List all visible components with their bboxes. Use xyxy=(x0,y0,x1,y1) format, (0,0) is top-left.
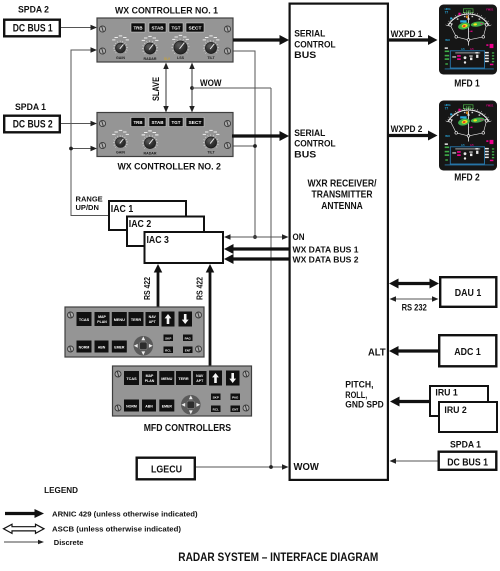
svg-text:ADC 1: ADC 1 xyxy=(454,347,481,358)
svg-text:APT: APT xyxy=(196,379,204,383)
svg-text:SERIAL: SERIAL xyxy=(294,29,325,40)
svg-text:PITCH,: PITCH, xyxy=(345,380,373,390)
svg-text:ABN: ABN xyxy=(145,405,153,409)
svg-text:CONTROL: CONTROL xyxy=(294,39,336,50)
svg-text:TILT: TILT xyxy=(207,56,215,60)
svg-text:WOW: WOW xyxy=(200,78,222,89)
svg-text:MFD CONTROLLERS: MFD CONTROLLERS xyxy=(144,423,232,434)
svg-text:RADAR: RADAR xyxy=(144,152,157,156)
svg-text:WOW: WOW xyxy=(294,462,320,473)
svg-text:CONTROL: CONTROL xyxy=(294,139,336,150)
svg-text:ALT: ALT xyxy=(368,347,386,358)
svg-text:PLAN: PLAN xyxy=(145,379,155,383)
svg-text:ROLL,: ROLL, xyxy=(345,390,367,400)
svg-text:SECT: SECT xyxy=(189,26,202,31)
svg-text:DC BUS 1: DC BUS 1 xyxy=(13,23,53,35)
svg-text:WXPD 2: WXPD 2 xyxy=(391,124,423,134)
svg-text:ASCB (unless otherwise indicat: ASCB (unless otherwise indicated) xyxy=(52,525,182,534)
svg-text:MFD 1: MFD 1 xyxy=(454,78,480,89)
svg-text:MENU: MENU xyxy=(114,318,125,322)
svg-text:NAV: NAV xyxy=(149,315,157,319)
svg-text:ABN: ABN xyxy=(98,346,106,350)
svg-text:IRU 2: IRU 2 xyxy=(444,405,466,416)
svg-text:WX DATA BUS 1: WX DATA BUS 1 xyxy=(293,244,359,254)
svg-text:STAB: STAB xyxy=(152,26,164,31)
svg-text:ANTENNA: ANTENNA xyxy=(321,201,363,212)
svg-text:TCAS: TCAS xyxy=(79,318,90,322)
svg-text:TRB: TRB xyxy=(134,26,143,31)
svg-text:MAP: MAP xyxy=(146,374,154,378)
svg-text:SPDA 1: SPDA 1 xyxy=(15,102,46,112)
svg-text:TILT: TILT xyxy=(207,151,215,155)
svg-text:IAC 3: IAC 3 xyxy=(147,235,170,246)
svg-text:NAV: NAV xyxy=(196,374,204,378)
svg-text:RS 422: RS 422 xyxy=(142,277,152,300)
svg-text:RADAR: RADAR xyxy=(144,57,157,61)
svg-text:RCL: RCL xyxy=(165,348,171,352)
svg-text:SECT: SECT xyxy=(189,120,202,125)
svg-text:STAB: STAB xyxy=(152,120,164,125)
svg-text:PAG: PAG xyxy=(185,336,192,340)
svg-text:SPDA 2: SPDA 2 xyxy=(18,4,49,14)
svg-text:TGT: TGT xyxy=(172,26,181,31)
svg-text:SLV: SLV xyxy=(164,57,171,61)
svg-text:DAU 1: DAU 1 xyxy=(455,288,482,299)
svg-text:NORM: NORM xyxy=(79,346,90,350)
svg-text:TRANSMITTER: TRANSMITTER xyxy=(312,190,374,201)
svg-text:ARNIC 429 (unless otherwise in: ARNIC 429 (unless otherwise indicated) xyxy=(52,509,198,518)
svg-text:TERR: TERR xyxy=(131,318,142,322)
svg-text:LSS: LSS xyxy=(177,56,185,60)
svg-text:DC BUS 2: DC BUS 2 xyxy=(13,119,53,131)
svg-text:IAC 1: IAC 1 xyxy=(111,204,134,215)
svg-text:ENT: ENT xyxy=(185,348,191,352)
svg-text:TERR: TERR xyxy=(178,377,189,381)
svg-text:EMER: EMER xyxy=(114,346,125,350)
svg-text:GND SPD: GND SPD xyxy=(345,400,384,410)
svg-text:RS 422: RS 422 xyxy=(194,277,204,300)
svg-text:IAC 2: IAC 2 xyxy=(129,219,152,230)
svg-text:SERIAL: SERIAL xyxy=(294,128,325,139)
svg-text:Discrete: Discrete xyxy=(54,538,84,547)
svg-text:WXR RECEIVER/: WXR RECEIVER/ xyxy=(308,178,377,189)
svg-text:RS 232: RS 232 xyxy=(402,302,427,312)
svg-text:IRU 1: IRU 1 xyxy=(435,387,458,398)
svg-text:PLAN: PLAN xyxy=(97,320,107,324)
svg-text:UP/DN: UP/DN xyxy=(76,203,99,212)
svg-text:WXPD 1: WXPD 1 xyxy=(391,29,423,39)
svg-text:BUS: BUS xyxy=(294,149,317,160)
svg-text:SKP: SKP xyxy=(165,336,171,340)
svg-text:RANGE: RANGE xyxy=(76,194,103,203)
svg-text:MAP: MAP xyxy=(98,315,106,319)
svg-text:LEGEND: LEGEND xyxy=(44,486,78,495)
svg-text:MENU: MENU xyxy=(161,377,172,381)
svg-text:MFD 2: MFD 2 xyxy=(454,172,480,183)
svg-text:APT: APT xyxy=(149,320,157,324)
svg-text:TGT: TGT xyxy=(172,120,181,125)
svg-text:WX CONTROLLER NO. 2: WX CONTROLLER NO. 2 xyxy=(117,161,221,172)
svg-text:GAIN: GAIN xyxy=(116,151,125,155)
svg-text:DC BUS 1: DC BUS 1 xyxy=(447,457,488,468)
svg-text:SKP: SKP xyxy=(213,395,219,399)
svg-text:PAG: PAG xyxy=(232,395,239,399)
svg-text:RADAR SYSTEM – INTERFACE DIAGR: RADAR SYSTEM – INTERFACE DIAGRAM xyxy=(178,550,378,564)
svg-text:WX CONTROLLER NO. 1: WX CONTROLLER NO. 1 xyxy=(115,5,219,16)
svg-text:TRB: TRB xyxy=(134,120,143,125)
svg-text:RCL: RCL xyxy=(213,407,219,411)
svg-text:TCAS: TCAS xyxy=(126,377,137,381)
svg-text:LGECU: LGECU xyxy=(151,464,182,475)
svg-text:BUS: BUS xyxy=(294,50,317,61)
svg-text:SPDA 1: SPDA 1 xyxy=(450,440,481,450)
svg-text:WX DATA BUS 2: WX DATA BUS 2 xyxy=(293,254,359,264)
svg-text:ENT: ENT xyxy=(232,407,238,411)
svg-text:GAIN: GAIN xyxy=(116,56,125,60)
svg-text:SLAVE: SLAVE xyxy=(150,77,161,101)
svg-text:NORM: NORM xyxy=(126,405,137,409)
svg-text:ON: ON xyxy=(293,232,305,242)
svg-text:EMER: EMER xyxy=(162,405,173,409)
